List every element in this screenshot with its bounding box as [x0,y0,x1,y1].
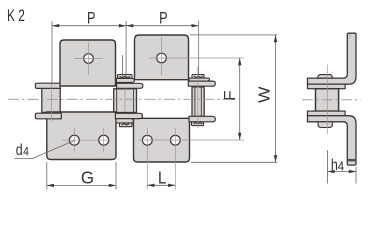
svg-text:h: h [331,156,338,174]
svg-text:G: G [81,167,94,187]
svg-text:L: L [158,168,166,187]
svg-text:K 2: K 2 [7,7,25,26]
svg-text:W: W [255,86,273,103]
svg-text:d: d [16,141,23,159]
svg-text:P: P [87,9,95,28]
svg-text:4: 4 [23,146,29,159]
svg-text:4: 4 [338,159,345,174]
svg-text:P: P [159,9,167,28]
